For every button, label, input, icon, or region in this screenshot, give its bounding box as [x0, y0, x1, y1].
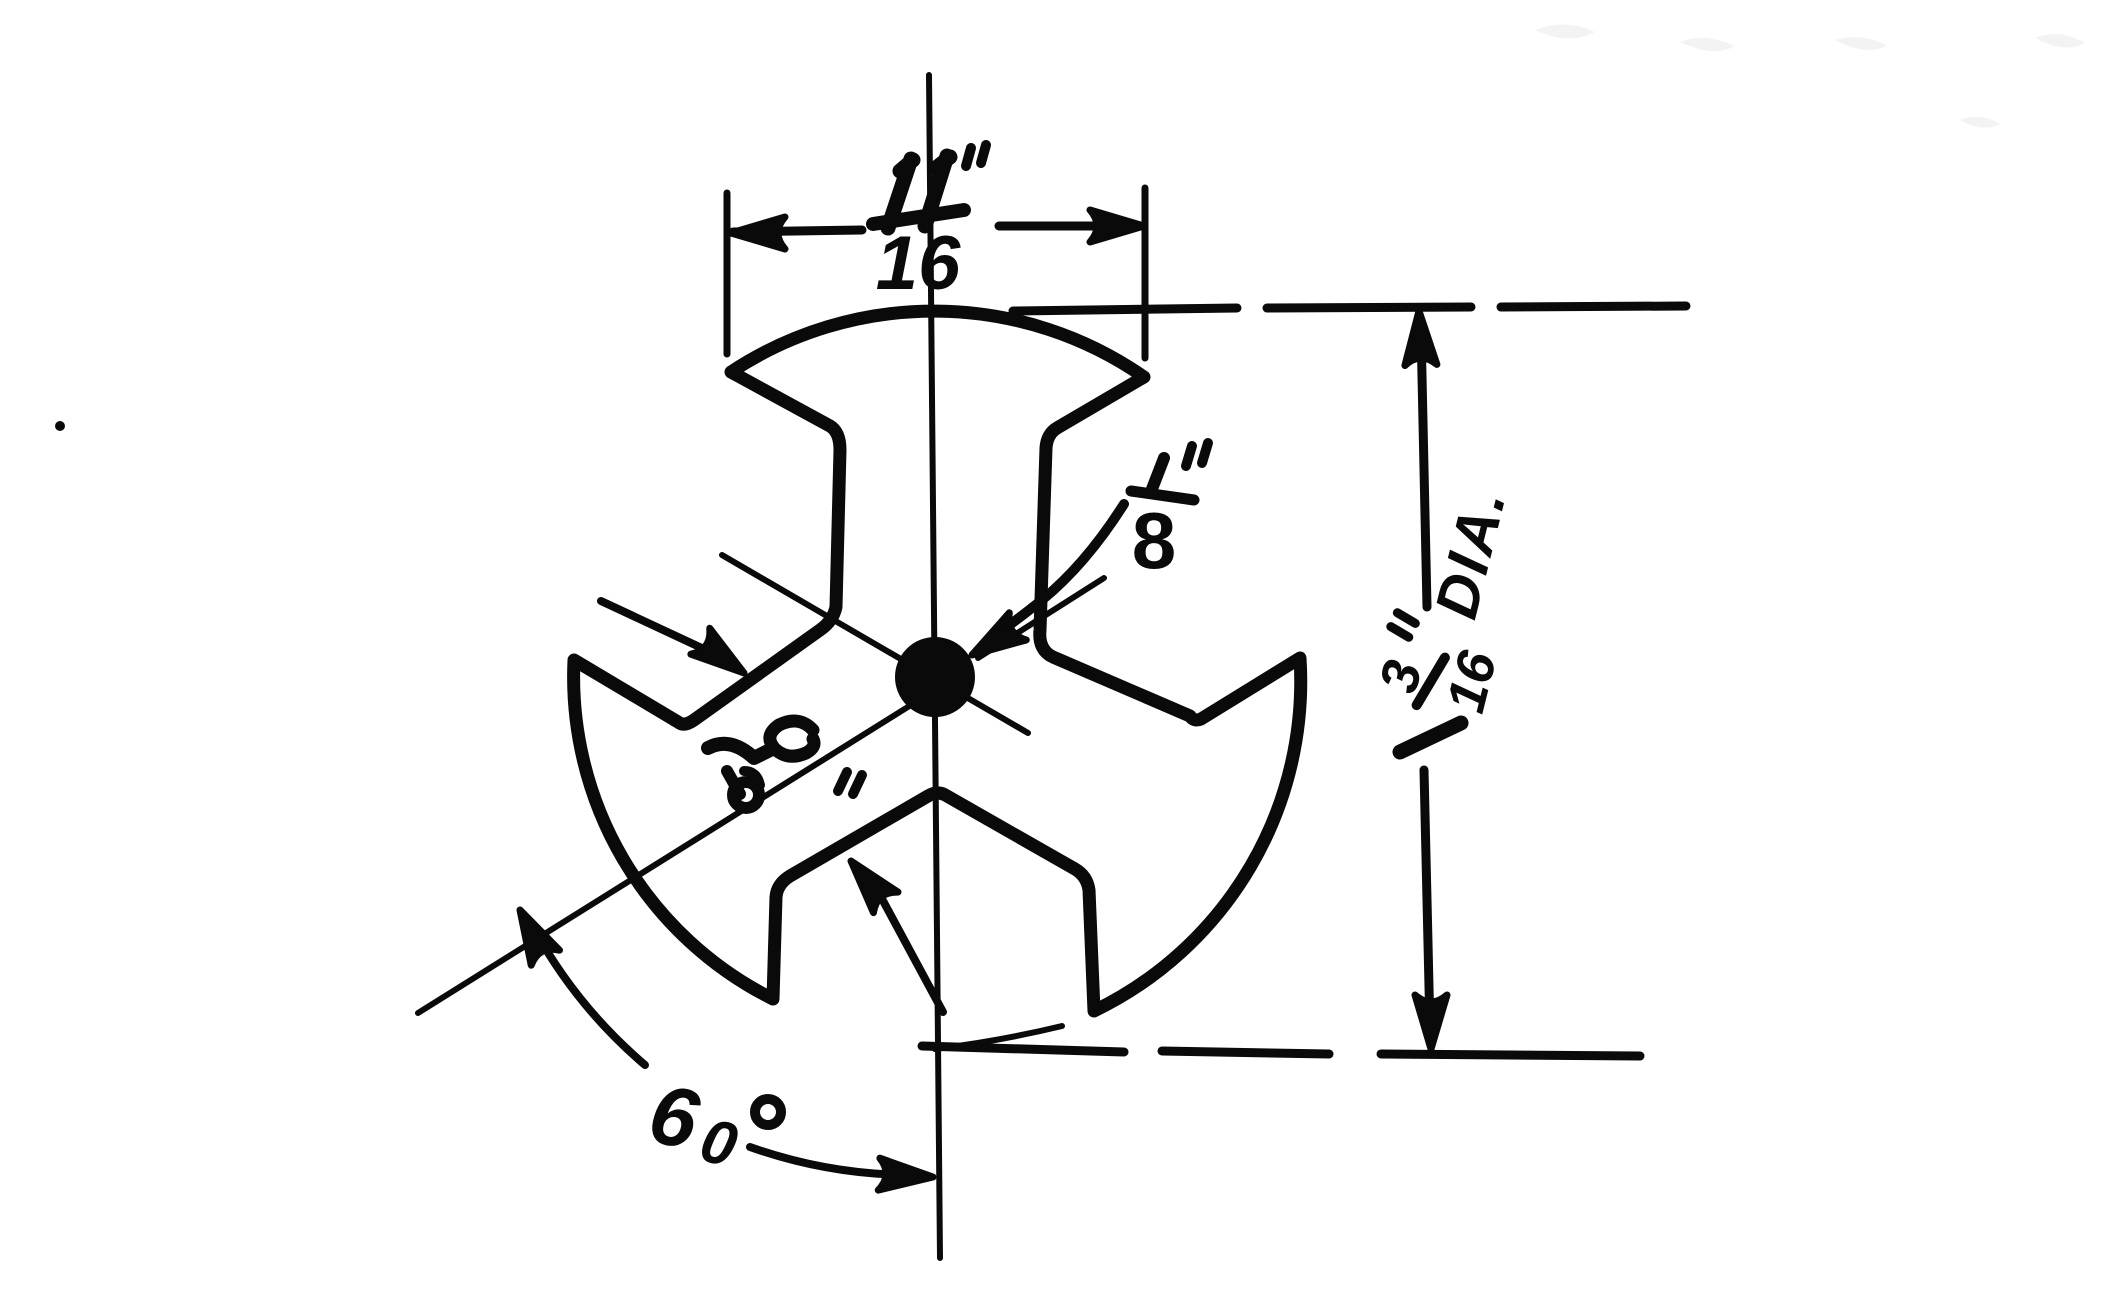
- 1/8 leader curve with arrow to hole: [988, 504, 1124, 640]
- faint scan smudges top right: [1535, 24, 2085, 127]
- 60 degree arc segment A with arrow: [533, 927, 645, 1065]
- vertical centerline: [929, 75, 940, 1258]
- 60 degree text: [641, 1066, 707, 1168]
- svg-text:16: 16: [876, 221, 961, 306]
- rotor lamination outline: [574, 311, 1301, 1011]
- vertical dimension line lower segment with down arrow: [1424, 770, 1430, 1030]
- rotated dimension text 1 3/16 DIA.: whole number 1: [1400, 723, 1461, 752]
- top dimension line left part with arrow: [733, 230, 862, 232]
- 60 degree arc segment B with arrow: [750, 1147, 912, 1175]
- top extension dashed line (13/16 dia, upper): [1013, 306, 1686, 311]
- 11/16 fraction numerator 11: [888, 156, 950, 228]
- bottom extension dashed line (13/16 dia, lower): [922, 1046, 1640, 1056]
- inch marks for 11/16: [966, 145, 986, 166]
- svg-text:8: 8: [1132, 496, 1177, 585]
- center hole (1/8 dia): [899, 641, 971, 713]
- top dimension line right part with arrow: [999, 222, 1142, 231]
- stem width arrow lower-right: [881, 897, 943, 1012]
- diagonal centerline (upper-left to lower-right axis): [722, 555, 1028, 733]
- 11/16 fraction bar: [873, 210, 964, 224]
- stray speck left margin: [55, 421, 65, 431]
- stem width arrow upper-left: [601, 601, 706, 650]
- small curve at bottom extension start: [935, 1026, 1062, 1049]
- vertical dimension line upper segment with up arrow: [1421, 330, 1427, 607]
- 5/16 scrawled fraction: [708, 744, 772, 758]
- top dimension: right extension line: [1142, 188, 1149, 358]
- top dimension 11/16: left extension line: [724, 193, 731, 354]
- rotated dimension text: fraction 3/16 and DIA.: [1368, 472, 1548, 718]
- 1/8 hole callout text: [1152, 458, 1164, 489]
- 11/16 fraction denominator 16: [876, 221, 961, 306]
- diagonal centerline (60-deg axis, lower-left to upper-right): [418, 578, 1104, 1013]
